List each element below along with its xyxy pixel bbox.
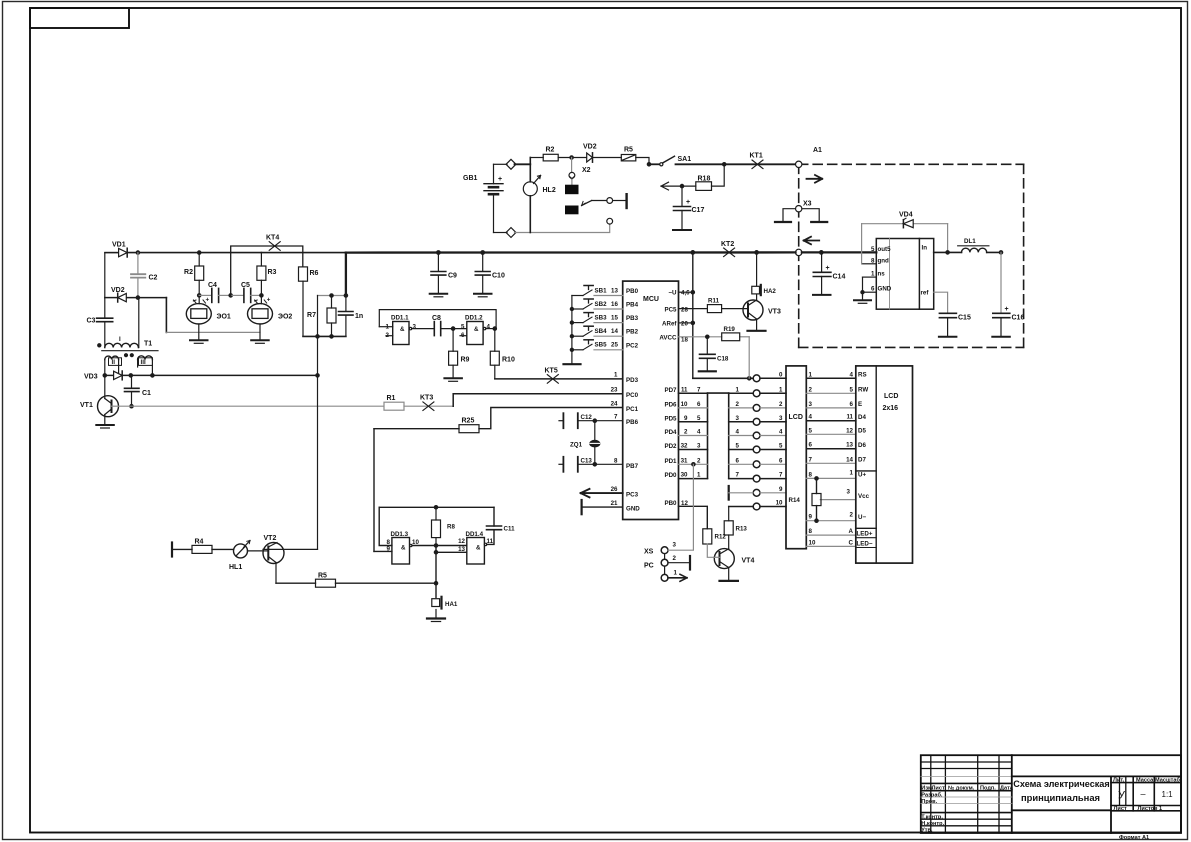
contact KT1 <box>724 153 795 169</box>
svg-text:4: 4 <box>487 323 491 330</box>
svg-text:ref: ref <box>921 290 930 297</box>
svg-text:C11: C11 <box>504 526 516 533</box>
svg-text:&: & <box>401 545 406 552</box>
wire power row to connector pin 0 <box>693 377 753 379</box>
connector X2 jack <box>565 158 627 225</box>
capacitor C16 <box>992 252 1024 336</box>
svg-text:11: 11 <box>681 386 688 393</box>
contact KT4 <box>231 235 303 296</box>
wire rail to pin8 <box>379 507 392 545</box>
svg-text:R10: R10 <box>502 357 515 364</box>
wire +5V drop to MCU power pins <box>692 252 694 378</box>
svg-text:PB3: PB3 <box>626 315 639 322</box>
svg-text:KT4: KT4 <box>266 235 279 242</box>
svg-text:Масштаб: Масштаб <box>1155 776 1180 783</box>
resistor R7 <box>307 296 336 337</box>
svg-text:D4: D4 <box>858 414 866 421</box>
svg-text:8: 8 <box>809 528 813 535</box>
battery GB1 <box>463 164 503 232</box>
transistor VT4 <box>714 549 754 581</box>
wire +U main bus <box>345 253 347 296</box>
wire pin13 <box>436 551 467 553</box>
pin numbers MCU side <box>681 386 740 478</box>
resistor R4 <box>192 539 234 554</box>
svg-text:PD0: PD0 <box>664 472 677 479</box>
svg-text:PB0: PB0 <box>664 500 677 507</box>
svg-text:C3: C3 <box>87 318 96 325</box>
svg-text:+: + <box>267 297 271 304</box>
svg-text:SB3: SB3 <box>595 314 608 321</box>
pin number cable column <box>708 393 729 478</box>
svg-text:Листов 1: Листов 1 <box>1138 806 1163 812</box>
svg-text:HL2: HL2 <box>543 187 556 194</box>
svg-text:32: 32 <box>681 443 688 450</box>
svg-text:23: 23 <box>611 387 618 394</box>
svg-text:A1: A1 <box>813 147 822 154</box>
svg-text:C5: C5 <box>241 282 250 289</box>
svg-text:5: 5 <box>779 443 783 450</box>
svg-text:8: 8 <box>614 457 618 464</box>
resistor R2a <box>184 253 204 304</box>
svg-text:C14: C14 <box>833 274 846 281</box>
svg-text:3: 3 <box>413 323 417 330</box>
capacitor C1 <box>125 375 152 408</box>
svg-text:5: 5 <box>809 427 813 434</box>
svg-text:C9: C9 <box>448 273 457 280</box>
title block row lines left <box>921 761 1012 763</box>
wire lamp return <box>165 298 167 333</box>
arrow PC3 out <box>581 489 623 497</box>
svg-text:R3: R3 <box>268 269 277 276</box>
capacitor C2 <box>131 253 158 298</box>
svg-text:1: 1 <box>674 570 678 577</box>
svg-text:Vcc: Vcc <box>858 493 870 500</box>
svg-text:6: 6 <box>779 457 783 464</box>
svg-text:+: + <box>686 199 690 206</box>
svg-text:Подп.: Подп. <box>980 785 996 791</box>
svg-text:DD1.2: DD1.2 <box>465 315 483 322</box>
button SB4 <box>572 335 583 337</box>
MCU DD2 <box>623 281 679 519</box>
capacitor C5 <box>231 282 263 302</box>
svg-text:4: 4 <box>809 414 813 421</box>
resistor R25 <box>459 418 479 433</box>
svg-text:PD6: PD6 <box>664 401 677 408</box>
contact KT3 <box>420 395 434 411</box>
svg-text:0: 0 <box>779 371 783 378</box>
MCU right pin labels <box>659 290 690 507</box>
svg-text:I: I <box>119 336 121 343</box>
diode VD2l <box>111 287 126 302</box>
svg-text:C2: C2 <box>149 275 158 282</box>
diode VD4 loop <box>862 224 948 264</box>
svg-text:gnd: gnd <box>878 257 890 264</box>
svg-text:7: 7 <box>736 472 740 479</box>
svg-text:Лист: Лист <box>932 785 945 791</box>
IC DC-DC converter U1 <box>876 239 933 310</box>
svg-text:9: 9 <box>779 486 783 493</box>
svg-text:XS: XS <box>644 549 654 556</box>
LCD pin numbers <box>809 371 854 546</box>
svg-text:4: 4 <box>850 371 854 378</box>
svg-text:14: 14 <box>846 456 853 463</box>
svg-text:4: 4 <box>779 429 783 436</box>
svg-text:2: 2 <box>684 429 688 436</box>
svg-text:7: 7 <box>779 472 783 479</box>
svg-text:1: 1 <box>850 469 854 476</box>
capacitor C8 <box>412 315 467 336</box>
resistor R11 <box>679 298 749 313</box>
svg-text:VD2: VD2 <box>583 144 597 151</box>
svg-text:R7: R7 <box>307 312 316 319</box>
svg-text:LED−: LED− <box>857 540 873 547</box>
svg-text:RS: RS <box>858 371 867 378</box>
svg-text:+: + <box>206 297 210 304</box>
svg-text:PD1: PD1 <box>664 458 677 465</box>
svg-text:SB1: SB1 <box>595 287 608 294</box>
lamp EL1 <box>186 297 231 344</box>
svg-text:5: 5 <box>736 443 740 450</box>
inductor DL1 <box>958 238 1001 252</box>
svg-text:7: 7 <box>614 414 618 421</box>
LCD module <box>856 366 913 563</box>
wire vertical HL2 branch <box>529 158 531 182</box>
svg-text:Лит.: Лит. <box>1113 777 1125 783</box>
wire PD1 row <box>679 463 708 465</box>
svg-text:15: 15 <box>611 314 618 321</box>
svg-text:SB4: SB4 <box>595 328 608 335</box>
wire step to PC0 <box>453 394 623 407</box>
svg-text:5: 5 <box>871 246 875 253</box>
svg-text:KT3: KT3 <box>420 395 433 402</box>
lamp HL2 <box>523 176 556 196</box>
transistor VT1 <box>80 375 119 428</box>
svg-text:13: 13 <box>846 442 853 449</box>
fuse FU1 <box>621 147 636 161</box>
svg-text:III: III <box>141 359 146 366</box>
svg-text:4: 4 <box>697 429 701 436</box>
wire AVCC with R19 <box>679 337 750 379</box>
svg-text:2: 2 <box>697 457 701 464</box>
svg-text:Н.контр.: Н.контр. <box>921 821 944 827</box>
svg-text:18: 18 <box>681 337 688 344</box>
capacitor C3 <box>87 318 113 325</box>
svg-text:C8: C8 <box>432 315 441 322</box>
svg-text:In: In <box>922 245 928 252</box>
svg-text:№ докум.: № докум. <box>948 785 975 791</box>
svg-text:6: 6 <box>850 401 854 408</box>
svg-text:20: 20 <box>681 321 688 328</box>
node circle on KT1 wire <box>796 161 802 167</box>
buzzer HA1 <box>427 583 458 621</box>
connector pin X1.1 diamond <box>506 159 516 169</box>
crystal ZQ1 <box>570 421 600 465</box>
svg-text:2: 2 <box>673 555 677 562</box>
svg-text:VT3: VT3 <box>768 309 781 316</box>
wire VD3 row <box>105 374 114 376</box>
MCU left pin labels <box>611 288 641 513</box>
svg-text:U−: U− <box>858 514 866 521</box>
button SB3 <box>572 322 583 324</box>
svg-text:D5: D5 <box>858 428 866 435</box>
svg-text:PC5: PC5 <box>664 306 677 313</box>
vertical to VT2 <box>317 296 319 550</box>
resistor R6 <box>299 267 319 337</box>
svg-text:ns: ns <box>878 271 886 278</box>
arrow right into A1 <box>807 175 823 183</box>
svg-text:D7: D7 <box>858 457 866 464</box>
wire +U bus into A1 <box>802 251 876 253</box>
svg-text:U+: U+ <box>858 472 866 479</box>
svg-text:DD1.4: DD1.4 <box>466 531 484 538</box>
svg-text:&: & <box>474 326 479 333</box>
svg-text:12: 12 <box>458 538 465 545</box>
svg-text:PC1: PC1 <box>626 406 639 413</box>
resistor R2 <box>543 147 558 161</box>
svg-text:Утв.: Утв. <box>921 828 933 834</box>
terminal GND21 <box>582 500 623 514</box>
wire feedback DD1.2 to DD1.1 <box>379 310 496 329</box>
svg-text:X3: X3 <box>803 201 812 208</box>
capacitor 1n <box>339 296 364 337</box>
connector pin numbers XS side <box>776 371 783 506</box>
top-left stamp box <box>30 8 129 28</box>
svg-text:R11: R11 <box>708 298 720 305</box>
terminal row9 <box>729 486 754 500</box>
svg-text:PB7: PB7 <box>626 463 639 470</box>
svg-text:R25: R25 <box>462 418 475 425</box>
title block column lines <box>930 755 932 833</box>
svg-text:LCD: LCD <box>789 414 803 421</box>
transformer T1 <box>98 298 158 376</box>
svg-text:C18: C18 <box>717 356 729 363</box>
connector pin X1.2 diamond <box>506 228 516 238</box>
wire PD2 row <box>679 449 708 451</box>
resistor R5b <box>276 573 438 588</box>
svg-text:10: 10 <box>681 401 688 408</box>
svg-text:30: 30 <box>681 472 688 479</box>
svg-text:HA2: HA2 <box>764 288 777 295</box>
svg-text:KT1: KT1 <box>750 153 763 160</box>
switch SA1 <box>649 156 724 166</box>
resistor R9 <box>444 329 469 382</box>
svg-text:C4: C4 <box>208 282 217 289</box>
svg-text:VD4: VD4 <box>899 212 913 219</box>
svg-text:1:1: 1:1 <box>1162 790 1174 799</box>
wire PB0 pin12 to R12 <box>679 506 708 529</box>
svg-text:PC2: PC2 <box>626 342 639 349</box>
svg-text:3: 3 <box>697 443 701 450</box>
svg-text:10: 10 <box>776 500 783 507</box>
svg-text:7: 7 <box>697 386 701 393</box>
transistor VT2 <box>263 535 318 583</box>
svg-text:PB4: PB4 <box>626 302 639 309</box>
svg-text:+: + <box>498 176 502 183</box>
wire VD2 row <box>105 297 118 299</box>
wire logic rail <box>379 506 494 508</box>
terminal left <box>171 543 173 557</box>
svg-text:8: 8 <box>809 471 813 478</box>
diode VD2 <box>583 144 597 163</box>
wire VT1 base row (gray) <box>119 405 385 407</box>
buttons SB1-SB5 <box>564 296 581 365</box>
wire PD7 row <box>679 392 708 394</box>
resistor R1 <box>384 395 453 410</box>
button SB5 <box>572 349 583 351</box>
svg-text:5: 5 <box>850 386 854 393</box>
svg-text:2: 2 <box>736 401 740 408</box>
wire lower bias bus <box>303 335 346 337</box>
svg-text:VD3: VD3 <box>84 374 98 381</box>
svg-text:7: 7 <box>809 456 813 463</box>
diode VD3 <box>84 371 122 381</box>
svg-text:Схема электрическая: Схема электрическая <box>1013 779 1109 789</box>
wire PD6 row <box>679 407 708 409</box>
svg-text:ЭО2: ЭО2 <box>278 314 292 321</box>
svg-text:14: 14 <box>611 328 618 335</box>
svg-text:ЭО1: ЭО1 <box>217 314 231 321</box>
LCD cable connector <box>786 366 806 549</box>
svg-text:21: 21 <box>611 500 618 507</box>
svg-text:R9: R9 <box>461 357 470 364</box>
svg-text:LED+: LED+ <box>857 530 873 537</box>
svg-text:R13: R13 <box>736 526 748 533</box>
wire R18 branch <box>712 164 725 186</box>
gate DD1.3 <box>387 531 467 564</box>
svg-text:R19: R19 <box>724 326 736 333</box>
svg-text:26: 26 <box>611 486 618 493</box>
svg-text:3: 3 <box>847 489 851 496</box>
connector XS to PC <box>644 464 693 581</box>
svg-text:6: 6 <box>809 442 813 449</box>
wire R25 to PC1 <box>374 428 459 430</box>
svg-text:R5: R5 <box>318 573 327 580</box>
ground U1 <box>854 277 871 303</box>
svg-text:R4: R4 <box>195 539 204 546</box>
svg-text:SB2: SB2 <box>595 301 608 308</box>
svg-text:PC3: PC3 <box>626 492 639 499</box>
svg-text:3: 3 <box>736 415 740 422</box>
svg-text:24: 24 <box>611 400 618 407</box>
svg-text:6: 6 <box>736 457 740 464</box>
svg-text:KT5: KT5 <box>545 368 558 375</box>
svg-text:6: 6 <box>697 401 701 408</box>
svg-text:R5: R5 <box>624 147 633 154</box>
svg-text:5: 5 <box>697 415 701 422</box>
svg-text:+: + <box>1005 306 1009 313</box>
capacitor C12 <box>559 413 623 428</box>
wires circles to LCD connector <box>760 378 786 506</box>
svg-text:C15: C15 <box>958 315 971 322</box>
svg-text:PD3: PD3 <box>626 377 639 384</box>
capacitor C13 <box>559 457 623 472</box>
svg-text:PD2: PD2 <box>664 443 677 450</box>
svg-text:C17: C17 <box>692 207 705 214</box>
svg-text:принципиальная: принципиальная <box>1021 792 1100 803</box>
resistor R13 <box>724 507 753 550</box>
arrow out left <box>661 182 696 190</box>
svg-text:Пров.: Пров. <box>921 799 937 805</box>
wires LCD connector to LCD <box>806 378 856 546</box>
svg-text:C1: C1 <box>142 390 151 397</box>
svg-text:1: 1 <box>736 386 740 393</box>
buzzer HA2 <box>752 252 777 295</box>
title block outline <box>921 755 1181 833</box>
resistor R18 <box>696 176 712 191</box>
svg-text:11: 11 <box>846 414 853 421</box>
wire battery top rail <box>494 163 508 165</box>
svg-text:3: 3 <box>779 415 783 422</box>
svg-text:LCD: LCD <box>884 393 898 400</box>
svg-text:T1: T1 <box>144 341 152 348</box>
svg-text:25: 25 <box>611 342 618 349</box>
svg-text:GND: GND <box>626 506 640 513</box>
svg-text:MCU: MCU <box>643 296 659 303</box>
wire In to DL1 <box>934 251 962 253</box>
lamp EL2 <box>248 297 293 344</box>
svg-text:16: 16 <box>611 301 618 308</box>
svg-text:28: 28 <box>681 306 688 313</box>
svg-text:DD1.1: DD1.1 <box>391 315 409 322</box>
capacitor C10 <box>474 253 505 297</box>
svg-text:1: 1 <box>779 386 783 393</box>
svg-text:AVCC: AVCC <box>659 335 677 342</box>
svg-text:У: У <box>1118 790 1126 802</box>
title block right section lines <box>1012 775 1181 777</box>
resistor R12 <box>703 529 727 558</box>
svg-text:R6: R6 <box>310 270 319 277</box>
svg-text:1: 1 <box>697 472 701 479</box>
svg-text:PD4: PD4 <box>664 429 677 436</box>
svg-text:HA1: HA1 <box>445 601 458 608</box>
svg-text:2: 2 <box>779 401 783 408</box>
svg-text:E: E <box>858 401 862 408</box>
svg-text:R14: R14 <box>789 497 801 504</box>
svg-text:Т.контр.: Т.контр. <box>921 814 943 820</box>
svg-text:DD1.3: DD1.3 <box>391 531 409 538</box>
svg-text:ZQ1: ZQ1 <box>570 442 583 449</box>
svg-text:13: 13 <box>611 287 618 294</box>
svg-text:SB5: SB5 <box>595 342 608 349</box>
button SB2 <box>572 308 583 310</box>
node circle on +U bus <box>796 249 802 255</box>
svg-text:10: 10 <box>809 539 816 546</box>
wire XS pin2 to terminal <box>668 562 690 564</box>
svg-text:2: 2 <box>850 512 854 519</box>
capacitor C9 <box>430 253 457 297</box>
svg-text:&: & <box>400 326 405 333</box>
svg-text:−U: −U <box>668 290 677 297</box>
svg-text:DL1: DL1 <box>964 238 976 245</box>
svg-text:PC: PC <box>644 563 654 570</box>
contact KT2 <box>721 241 735 257</box>
connector circles XP1 <box>753 375 760 510</box>
wire PD5 row <box>679 421 708 423</box>
svg-text:R12: R12 <box>715 534 727 541</box>
resistor R19 <box>722 326 740 341</box>
svg-text:C16: C16 <box>1012 315 1025 322</box>
module A1 dashed boundary <box>799 164 1024 347</box>
LED HL1 <box>229 541 263 572</box>
wire R2 line <box>530 157 543 159</box>
svg-text:4,6: 4,6 <box>681 290 690 297</box>
svg-text:GND: GND <box>878 286 892 293</box>
svg-text:HL1: HL1 <box>229 564 242 571</box>
capacitor C11 <box>487 507 516 544</box>
gate DD1.1 <box>379 315 416 345</box>
wire R25 branch down <box>373 429 375 552</box>
svg-text:Дата: Дата <box>1000 785 1014 791</box>
